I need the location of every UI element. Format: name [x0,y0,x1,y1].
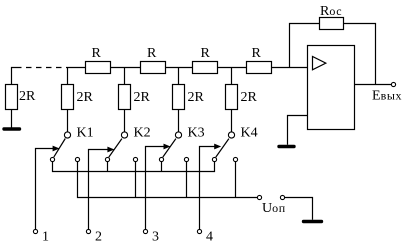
op-amp U1 body [308,46,355,130]
wire 2R bit4 to switch K4 [231,110,233,132]
lower bus joining right throw contacts to Uop [78,162,258,198]
wire left termination elbow [12,68,17,85]
node A leg [67,68,69,85]
control line input 2 to K2 [89,150,109,230]
svg-text:K2: K2 [134,126,151,141]
switch K3 lever [163,139,176,158]
svg-text:K4: K4 [241,126,258,141]
wire 2R bit1 to switch K1 [67,110,69,132]
svg-text:3: 3 [152,230,159,245]
switch K1 throw contacts [50,157,54,161]
ground (Uop) [304,220,322,223]
svg-text:2: 2 [95,230,102,245]
digital input terminal 3 [143,229,147,233]
terminal Uop left [257,195,261,199]
svg-text:2R: 2R [188,90,205,105]
resistor 2R bit3 [173,85,185,110]
digital input terminal 4 [197,229,201,233]
svg-text:2R: 2R [77,90,94,105]
resistor R1 [86,62,111,74]
resistor 2R bit4 [226,85,238,110]
terminal Uop right [280,195,284,199]
svg-text:Евых: Евых [372,89,402,104]
lower bus stub K2 [135,162,137,198]
switch K1 common terminal [64,132,70,138]
svg-text:R: R [92,46,102,61]
svg-text:K1: K1 [77,126,94,141]
feedback tap from summing node [290,24,320,68]
wire 2R terminator to ground [11,110,13,128]
svg-text:2R: 2R [134,90,151,105]
upper bus stub K2 [107,162,109,172]
wire R4 to op-amp inverting input [272,67,308,69]
svg-text:R: R [201,46,211,61]
digital input terminal 2 [86,229,90,233]
op-amp output wire [355,84,392,86]
resistor Roc [320,18,344,30]
switch K4 throw contacts [212,157,216,161]
wire R2 to R3 through node C [166,67,193,69]
digital input terminal 1 [33,229,37,233]
svg-text:4: 4 [206,230,213,245]
resistor 2R terminator [6,85,18,110]
control line input 4 to K4 [200,147,216,230]
svg-text:1: 1 [42,230,49,245]
svg-text:R: R [147,46,157,61]
wire R3 to R4 through node D [218,67,247,69]
svg-text:Uоп: Uоп [262,201,286,216]
wire rail node A to R1 [67,67,86,69]
switch K3 throw contacts [159,157,163,161]
control line input 3 to K3 [146,147,165,230]
switch K2 common terminal [121,132,127,138]
node B leg [124,68,126,85]
lower bus stub K4 [235,162,237,198]
wire 2R bit2 to switch K2 [124,110,126,132]
ground (op-amp input) [279,145,294,148]
svg-text:R: R [252,46,262,61]
upper bus stub K3 [161,162,163,172]
feedback wire Roc to output [344,24,376,85]
wire Uop to ground [285,198,313,220]
resistor R2 [141,62,166,74]
resistor 2R bit2 [119,85,131,110]
svg-text:2R: 2R [19,89,36,104]
lower bus stub K3 [186,162,188,198]
node D leg [231,68,233,85]
switch K4 common terminal [228,132,234,138]
resistor 2R bit1 [62,85,74,110]
ground (left) [4,127,20,130]
wire 2R bit3 to switch K3 [178,110,180,132]
node C leg [178,68,180,85]
switch K2 lever [109,139,122,158]
op-amp triangle symbol [313,57,326,70]
switch K4 lever [216,139,229,158]
resistor R4 [247,62,272,74]
svg-text:2R: 2R [241,90,258,105]
control line input 1 to K1 [36,149,54,230]
wire R1 to R2 through node B [111,67,141,69]
switch K2 throw contacts [105,157,109,161]
resistor R3 [193,62,218,74]
svg-text:Rос: Rос [320,4,342,19]
switch K3 common terminal [175,132,181,138]
switch K1 lever [54,139,66,158]
wire dashed to node A [16,67,67,69]
op-amp non-inverting input wire [288,116,308,145]
svg-text:K3: K3 [188,126,205,141]
output terminal [391,82,395,86]
upper bus joining left throw contacts [53,162,215,172]
